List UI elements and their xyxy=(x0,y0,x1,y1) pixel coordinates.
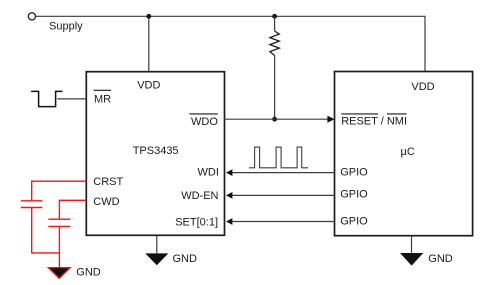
junction dot supply/TPS VDD xyxy=(146,14,151,19)
svg-text:CWD: CWD xyxy=(93,196,119,208)
wire GPIO to SET[0:1] xyxy=(232,221,335,223)
wire WDO to RESET/NMI xyxy=(225,118,329,120)
ground capacitors (red outline) xyxy=(48,268,70,279)
svg-text:GPIO: GPIO xyxy=(340,189,368,201)
wire supply to resistor top xyxy=(274,16,276,31)
IC U1 TPS3435 box xyxy=(86,72,224,236)
svg-text:GPIO: GPIO xyxy=(340,166,368,178)
wire CWD pin (red) xyxy=(59,200,86,219)
svg-text:VDD: VDD xyxy=(137,80,160,92)
svg-text:GND: GND xyxy=(428,253,453,265)
MR input pulse symbol xyxy=(31,91,62,106)
svg-text:WDI: WDI xyxy=(198,166,219,178)
svg-text:RESET / NMI: RESET / NMI xyxy=(341,116,407,128)
arrowhead into SET[0:1] xyxy=(226,218,232,225)
watchdog pulse train waveform xyxy=(249,147,308,168)
wire GPIO to WDI xyxy=(232,172,335,174)
svg-text:VDD: VDD xyxy=(411,81,434,93)
resistor pull-up xyxy=(270,31,279,56)
wire CWD cap to ground (red) xyxy=(58,227,60,268)
svg-text:Supply: Supply xyxy=(49,21,83,33)
svg-text:TPS3435: TPS3435 xyxy=(133,145,179,157)
capacitor CWD xyxy=(48,219,70,226)
junction dot WDO node xyxy=(272,117,277,122)
wire CRST cap to ground rail (red) xyxy=(32,208,60,253)
arrowhead into WDI xyxy=(226,169,232,176)
IC U2 microcontroller box xyxy=(335,72,473,236)
svg-text:GND: GND xyxy=(173,253,198,265)
wire MR pin xyxy=(57,98,86,100)
capacitor CRST xyxy=(21,201,43,208)
arrowhead into RESET/NMI xyxy=(327,116,334,123)
wire CRST pin (red) xyxy=(32,181,87,200)
svg-text:CRST: CRST xyxy=(93,176,123,188)
svg-text:WD-EN: WD-EN xyxy=(181,190,218,202)
junction dot supply/resistor xyxy=(272,14,277,19)
wire VDD drop to TPS3435 xyxy=(148,16,150,71)
svg-text:GPIO: GPIO xyxy=(340,215,368,227)
wire TPS3435 GND xyxy=(156,235,158,253)
wire uC GND xyxy=(411,236,413,253)
ground TPS3435 xyxy=(145,253,168,265)
ground uC xyxy=(400,253,423,266)
wire GPIO to WD-EN xyxy=(232,194,335,196)
svg-text:WDO: WDO xyxy=(191,116,218,128)
svg-text:GND: GND xyxy=(76,267,101,279)
svg-text:SET[0:1]: SET[0:1] xyxy=(175,216,218,228)
supply terminal xyxy=(28,13,35,20)
arrowhead into WD-EN xyxy=(226,192,232,199)
svg-text:µC: µC xyxy=(401,146,415,158)
svg-text:MR: MR xyxy=(94,94,111,106)
wire supply rail horizontal xyxy=(36,16,425,71)
wire resistor bottom to WDO node xyxy=(274,56,276,120)
